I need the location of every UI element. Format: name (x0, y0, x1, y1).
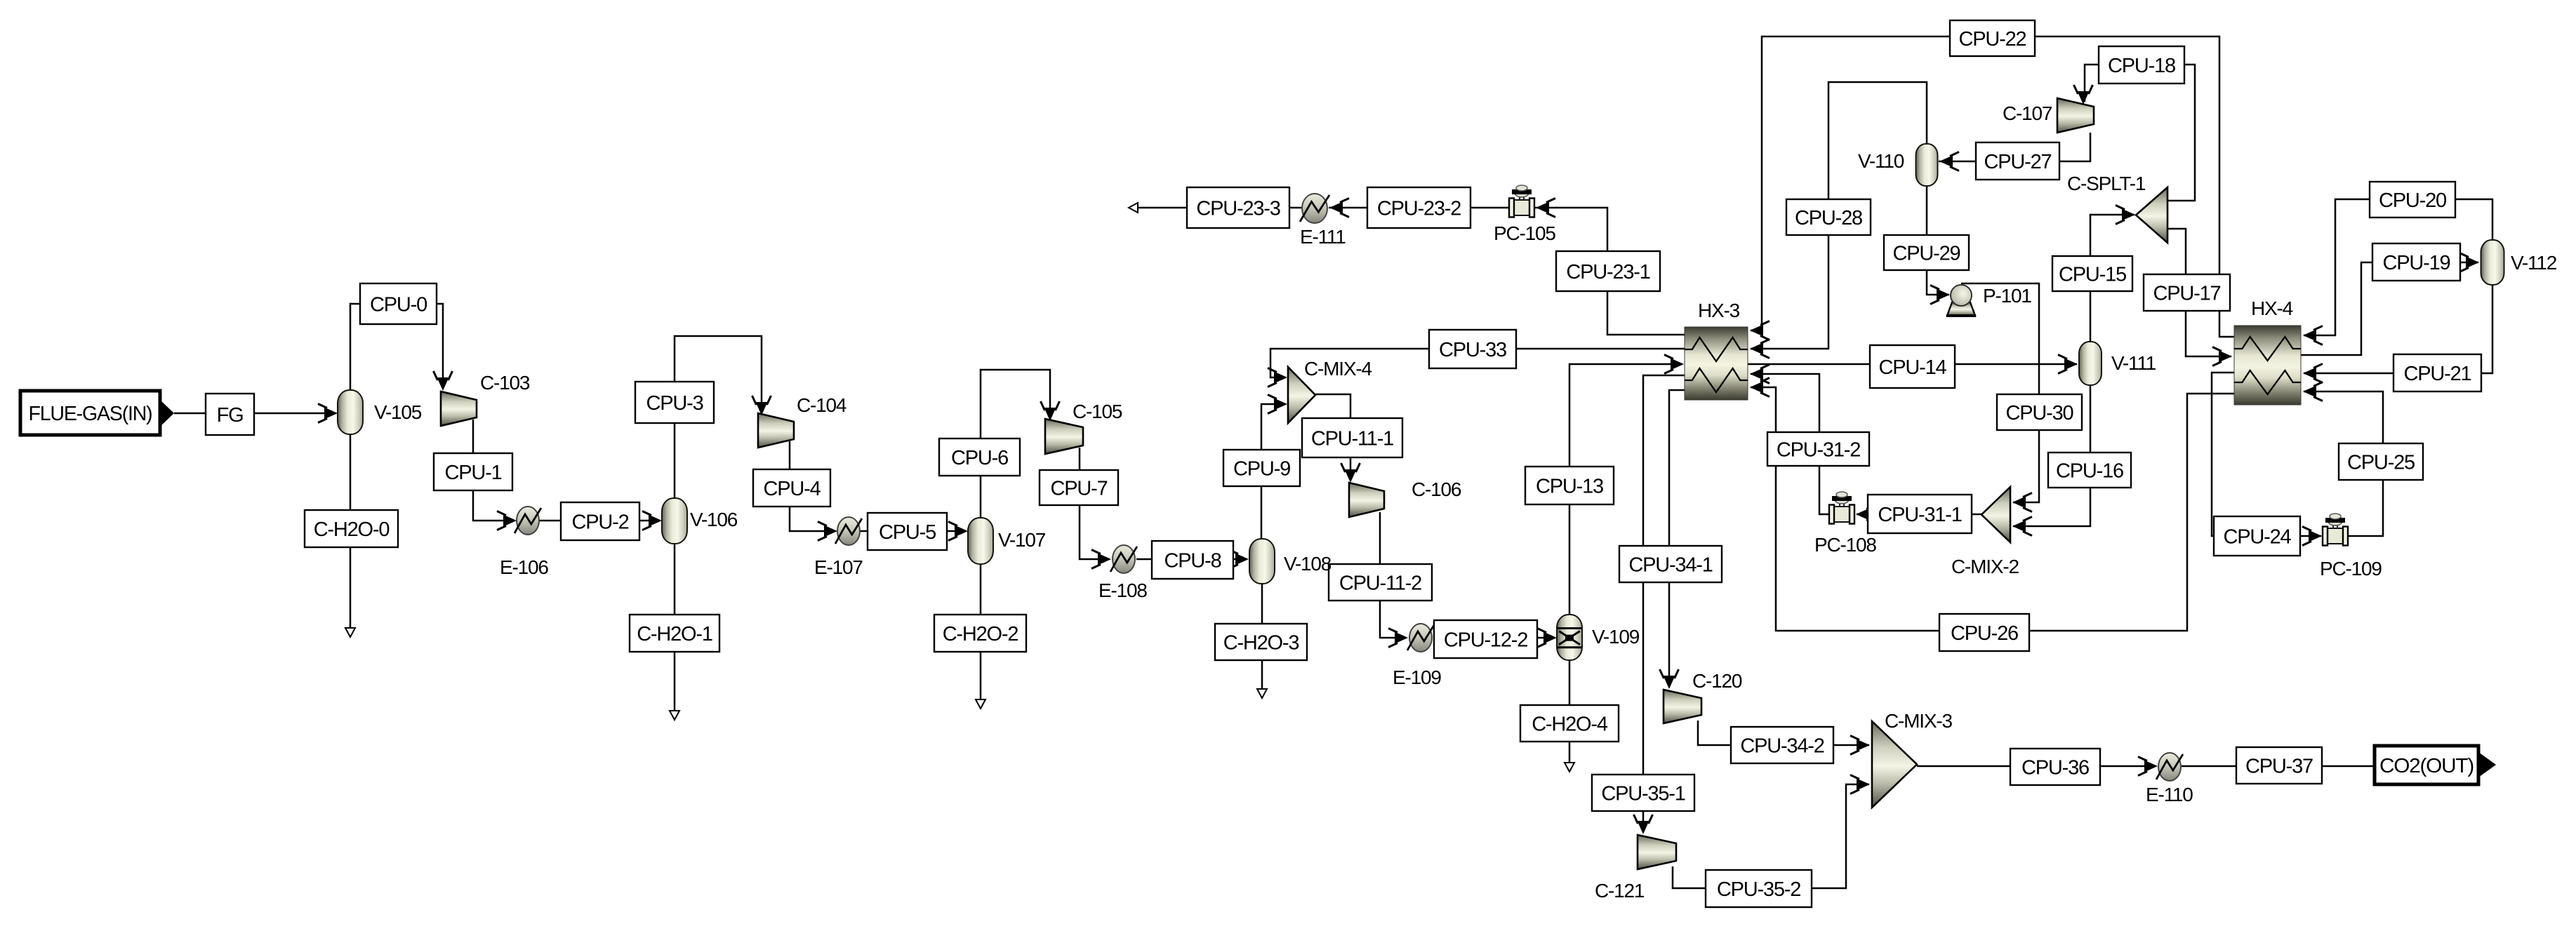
svg-text:E-110: E-110 (2146, 784, 2193, 805)
svg-text:C-106: C-106 (1412, 478, 1461, 500)
arrowhead into C-MIX-2 bottom (2012, 517, 2032, 536)
svg-text:CO2(OUT): CO2(OUT) (2379, 755, 2474, 777)
wire CPU-22 (1751, 36, 2234, 337)
svg-text:CPU-5: CPU-5 (879, 521, 936, 544)
compressor C-104 (758, 413, 794, 448)
wire C-H2O-3 (1261, 584, 1263, 695)
svg-text:V-107: V-107 (998, 529, 1046, 551)
wire CPU-35-2 (1673, 784, 1869, 888)
svg-text:CPU-28: CPU-28 (1795, 207, 1862, 229)
stream label CPU-31-2 (1767, 432, 1869, 466)
splitter C-SPLT-1 (2136, 187, 2167, 243)
svg-text:V-108: V-108 (1284, 553, 1332, 575)
arrowhead into PC-108 (1856, 505, 1875, 524)
heater E-108 (1110, 545, 1137, 573)
svg-text:CPU-25: CPU-25 (2347, 452, 2415, 474)
arrowhead into HX-4 right CPU-25 (2303, 382, 2323, 401)
svg-text:CPU-0: CPU-0 (370, 294, 427, 316)
arrowhead into C-MIX-2 top (2012, 493, 2032, 512)
svg-text:CPU-37: CPU-37 (2245, 756, 2313, 778)
stream label CPU-3 (635, 382, 714, 423)
stream label C-H2O-2 (934, 615, 1026, 652)
stream label FG (206, 394, 254, 435)
wire CPU-9 (1261, 404, 1285, 539)
wire CPU-16 (2013, 385, 2090, 526)
svg-text:CPU-34-2: CPU-34-2 (1740, 735, 1824, 758)
wire CPU-12-2 (1433, 637, 1555, 639)
wire CPU-35-1 (1643, 375, 1685, 832)
svg-text:C-120: C-120 (1692, 670, 1742, 692)
stream label CPU-28 (1786, 199, 1871, 235)
svg-text:C-H2O-3: C-H2O-3 (1223, 632, 1299, 655)
heater E-111 (1300, 194, 1329, 223)
wire CPU-1 (473, 420, 514, 521)
stream label CPU-33 (1429, 330, 1516, 368)
compressor C-107 (2057, 98, 2094, 133)
svg-text:CPU-22: CPU-22 (1959, 28, 2026, 51)
wire CPU-7 (1080, 448, 1109, 559)
wire CPU-28 (1751, 82, 1927, 349)
arrowhead into E-107 (818, 522, 837, 541)
svg-text:CPU-20: CPU-20 (2379, 189, 2446, 212)
stream label CPU-14 (1870, 345, 1955, 388)
stream label CPU-17 (2144, 274, 2230, 311)
arrowhead into C-MIX-4 top (1268, 368, 1287, 387)
stream label C-H2O-0 (305, 510, 398, 547)
arrowhead into C-MIX-3 bottom (1850, 775, 1870, 794)
arrowhead into C-105 (1041, 401, 1060, 421)
stream label CPU-36 (2010, 749, 2100, 785)
wire CPU-13 (1569, 364, 1682, 615)
svg-text:C-H2O-2: C-H2O-2 (943, 623, 1018, 645)
svg-text:C-SPLT-1: C-SPLT-1 (2067, 173, 2146, 194)
svg-text:CPU-6: CPU-6 (951, 447, 1008, 469)
compressor C-120 (1664, 690, 1701, 723)
vessel V-106 (662, 498, 687, 544)
stream label CPU-25 (2339, 443, 2423, 480)
open arrow waste water 0 (345, 628, 355, 637)
arrowhead into C-MIX-4 bottom (1268, 395, 1287, 414)
wire CPU-24 (2212, 373, 2321, 536)
wire CPU-36 (1917, 765, 2156, 768)
svg-text:HX-3: HX-3 (1698, 300, 1740, 321)
svg-text:FLUE-GAS(IN): FLUE-GAS(IN) (29, 403, 152, 425)
stream label CPU-15 (2052, 256, 2132, 291)
stream label CPU-12-2 (1434, 620, 1537, 658)
svg-text:CPU-3: CPU-3 (646, 392, 703, 415)
arrowhead into PC-109 (2302, 527, 2322, 546)
svg-text:V-105: V-105 (374, 401, 422, 423)
svg-text:CPU-31-2: CPU-31-2 (1777, 439, 1860, 462)
wire CPU-11-2 (1380, 512, 1406, 638)
svg-text:CPU-23-3: CPU-23-3 (1196, 198, 1280, 220)
wire CPU-34-2 (1698, 721, 1869, 745)
svg-text:CPU-26: CPU-26 (1951, 622, 2018, 645)
stream label CPU-7 (1040, 470, 1118, 505)
pump P-101 (1946, 285, 1976, 316)
wire CPU-11-1 (1315, 394, 1350, 480)
wire CPU-20 (2304, 199, 2492, 335)
wire C-H2O-2 (980, 564, 982, 705)
stream label CPU-13 (1525, 467, 1614, 504)
arrowhead into HX-3 right CPU-22 (1750, 321, 1770, 340)
valve PC-109 (2323, 514, 2348, 546)
svg-text:C-H2O-0: C-H2O-0 (314, 518, 390, 541)
svg-text:V-106: V-106 (690, 509, 738, 530)
inlet triangle FLUE-GAS(IN) (160, 400, 174, 427)
svg-text:C-105: C-105 (1073, 401, 1122, 422)
stream label CPU-2 (561, 502, 639, 540)
svg-text:CPU-23-2: CPU-23-2 (1377, 198, 1461, 220)
svg-text:V-109: V-109 (1592, 626, 1640, 648)
stream label CPU-5 (868, 513, 947, 550)
svg-text:E-107: E-107 (814, 556, 863, 578)
mixer C-MIX-4 (1288, 367, 1315, 423)
vessel V-107 (968, 518, 993, 564)
arrowhead into C-120 (1660, 669, 1679, 689)
arrowhead into C-104 (752, 396, 771, 415)
open arrow waste water 2 (976, 699, 985, 709)
stream label CPU-1 (434, 453, 512, 490)
wire CPU-8 (1136, 558, 1247, 561)
stream label CPU-19 (2372, 243, 2460, 281)
svg-text:CPU-12-2: CPU-12-2 (1444, 629, 1527, 652)
mixer C-MIX-3 (1872, 721, 1917, 808)
stream label CPU-27 (1976, 142, 2059, 180)
wire CPU-31-1 (1857, 514, 1981, 516)
arrowhead into V-109 (1537, 629, 1557, 648)
heater E-106 (514, 507, 541, 535)
wire CPU-31-2 (1751, 374, 1830, 514)
svg-text:CPU-27: CPU-27 (1984, 151, 2052, 173)
wire CPU-5 (860, 530, 966, 533)
valve PC-105 (1509, 185, 1534, 217)
arrowhead into C-SPLT-1 (2116, 206, 2135, 225)
open arrow waste water 3 (1257, 689, 1267, 698)
wire CPU-21 (2304, 285, 2492, 373)
vessel V-110 (1916, 144, 1938, 186)
svg-text:E-109: E-109 (1393, 667, 1441, 688)
stream label CPU-37 (2236, 747, 2322, 784)
arrowhead into HX-4 left CPU-17 (2212, 347, 2232, 366)
stream label CPU-20 (2370, 182, 2455, 217)
svg-text:C-103: C-103 (480, 372, 530, 394)
stream label FLUE-GAS(IN) (20, 391, 160, 435)
svg-text:CPU-35-1: CPU-35-1 (1601, 783, 1685, 805)
arrowhead into E-106 (497, 511, 517, 530)
compressor C-106 (1349, 483, 1384, 517)
arrowhead into HX-3 right CPU-31-2 (1750, 365, 1770, 384)
wire C-H2O-4 (1569, 660, 1571, 768)
wire CPU-37 (2182, 765, 2375, 768)
svg-text:C-104: C-104 (797, 394, 847, 416)
stream label CPU-35-2 (1706, 870, 1812, 907)
wire CPU-0 (350, 304, 443, 391)
svg-text:CPU-9: CPU-9 (1233, 458, 1290, 481)
wire CPU-2 (538, 520, 660, 522)
svg-text:V-111: V-111 (2111, 352, 2156, 374)
svg-text:PC-109: PC-109 (2320, 558, 2382, 580)
stream label CPU-31-1 (1868, 495, 1972, 533)
wire CPU-33 (1270, 349, 1685, 377)
stream label CPU-26 (1939, 614, 2029, 651)
wire CPU-30 (1961, 283, 2039, 502)
stream label CPU-24 (2214, 516, 2300, 556)
arrowhead into HX-3 left (1664, 355, 1684, 374)
stream label CPU-0 (360, 283, 437, 324)
open arrow waste water 1 (670, 711, 679, 720)
heat exchanger HX-4 (2234, 326, 2301, 405)
svg-text:C-H2O-4: C-H2O-4 (1532, 714, 1608, 736)
heater E-110 (2156, 753, 2183, 781)
arrowhead into C-106 (1341, 463, 1360, 483)
svg-text:CPU-14: CPU-14 (1879, 356, 1947, 379)
svg-text:CPU-2: CPU-2 (571, 511, 628, 534)
arrowhead into E-108 (1091, 550, 1111, 569)
vessel V-108 (1249, 539, 1275, 584)
arrowhead into V-105 (318, 404, 338, 423)
wire CPU-15 (2090, 215, 2135, 342)
heater E-109 (1407, 624, 1434, 652)
svg-text:C-121: C-121 (1595, 880, 1645, 902)
arrowhead into C-103 (434, 371, 453, 391)
svg-text:CPU-13: CPU-13 (1536, 476, 1603, 498)
vessel V-111 (2079, 342, 2102, 385)
svg-text:CPU-34-1: CPU-34-1 (1628, 554, 1712, 577)
svg-text:V-110: V-110 (1858, 150, 1904, 172)
stream label CPU-21 (2394, 354, 2481, 391)
arrowhead into E-111 (1329, 199, 1349, 217)
arrowhead into PC-105 (1536, 199, 1555, 217)
svg-text:CPU-35-2: CPU-35-2 (1717, 878, 1800, 901)
stream label CO2(OUT) (2375, 746, 2478, 784)
compressor C-103 (441, 391, 477, 426)
stream label CPU-35-1 (1592, 775, 1694, 811)
stream label CPU-16 (2048, 453, 2131, 488)
arrowhead into C-MIX-3 top (1850, 736, 1870, 755)
svg-text:CPU-4: CPU-4 (763, 478, 821, 500)
arrowhead into C-107 (2074, 85, 2093, 105)
wire CPU-23-3 (1133, 207, 1302, 209)
svg-text:CPU-15: CPU-15 (2059, 264, 2126, 286)
svg-text:C-MIX-3: C-MIX-3 (1885, 710, 1952, 732)
svg-text:CPU-17: CPU-17 (2153, 283, 2221, 305)
valve PC-108 (1829, 492, 1854, 524)
stream label C-H2O-4 (1520, 705, 1619, 742)
vessel V-109 (1557, 615, 1582, 660)
compressor C-121 (1638, 835, 1676, 869)
vessel V-105 (338, 390, 363, 434)
arrowhead into HX-3 right CPU-26 (1750, 378, 1770, 397)
stream label CPU-23-3 (1187, 187, 1289, 228)
wire FG (174, 413, 336, 415)
svg-text:HX-4: HX-4 (2251, 297, 2293, 319)
svg-text:CPU-11-2: CPU-11-2 (1339, 572, 1421, 595)
stream label CPU-11-1 (1302, 418, 1402, 457)
wire CPU-27 (1939, 133, 2090, 161)
arrowhead into V-111 (2058, 355, 2078, 374)
stream label CPU-34-2 (1731, 727, 1833, 763)
arrowhead into C-121 (1634, 815, 1653, 834)
svg-text:CPU-30: CPU-30 (2006, 402, 2073, 424)
wire C-H2O-0 (350, 434, 352, 634)
wire CPU-6 (981, 370, 1050, 518)
stream label CPU-23-1 (1556, 251, 1660, 291)
stream label C-H2O-1 (630, 615, 719, 652)
wire CPU-23-1 (1535, 208, 1685, 335)
stream label CPU-30 (1997, 394, 2082, 430)
stream label C-H2O-3 (1215, 624, 1307, 660)
svg-text:CPU-23-1: CPU-23-1 (1566, 261, 1649, 283)
stream label CPU-4 (753, 469, 830, 507)
wire CPU-34-1 (1669, 390, 1685, 687)
open arrow vent out (1129, 203, 1138, 213)
svg-text:CPU-29: CPU-29 (1893, 243, 1960, 265)
stream label CPU-6 (939, 438, 1020, 476)
stream label CPU-22 (1950, 20, 2035, 56)
wire CPU-3 (675, 336, 762, 498)
svg-text:CPU-7: CPU-7 (1050, 478, 1107, 500)
stream label CPU-11-2 (1329, 564, 1432, 601)
svg-text:P-101: P-101 (1983, 285, 2031, 307)
svg-text:CPU-19: CPU-19 (2383, 252, 2450, 274)
wire CPU-29 (1927, 186, 1949, 295)
wire CPU-19 (2301, 262, 2478, 355)
heat exchanger HX-3 (1685, 327, 1748, 400)
arrowhead into HX-3 right CPU-28 (1750, 340, 1770, 359)
svg-text:PC-105: PC-105 (1494, 222, 1555, 244)
svg-text:FG: FG (217, 404, 244, 427)
arrowhead into V-108 (1229, 550, 1249, 569)
wire CPU-17 (2167, 229, 2231, 356)
wire CPU-4 (790, 441, 835, 531)
arrowhead into E-109 (1388, 629, 1408, 648)
compressor C-105 (1045, 419, 1083, 454)
svg-text:CPU-16: CPU-16 (2056, 460, 2123, 483)
arrowhead into E-110 (2138, 757, 2158, 776)
svg-text:CPU-21: CPU-21 (2404, 363, 2471, 385)
arrowhead into V-112 (2459, 253, 2479, 272)
arrowhead into P-101 (1930, 286, 1950, 304)
arrowhead into V-107 (948, 522, 968, 541)
wire CPU-14 (1748, 363, 2077, 366)
svg-text:CPU-36: CPU-36 (2021, 757, 2089, 779)
svg-text:C-107: C-107 (2003, 102, 2052, 124)
arrowhead into V-110 (1939, 152, 1959, 171)
svg-text:CPU-18: CPU-18 (2108, 55, 2175, 77)
svg-text:CPU-1: CPU-1 (444, 462, 501, 484)
svg-text:CPU-31-1: CPU-31-1 (1878, 504, 1961, 526)
svg-text:V-112: V-112 (2511, 252, 2557, 274)
outlet triangle CO2(OUT) (2478, 752, 2496, 777)
stream label CPU-8 (1152, 541, 1233, 579)
stream label CPU-23-2 (1367, 187, 1470, 228)
svg-text:E-108: E-108 (1098, 580, 1147, 601)
open arrow waste water 4 (1565, 763, 1574, 772)
svg-text:E-111: E-111 (1300, 226, 1346, 248)
stream label CPU-34-1 (1619, 546, 1722, 582)
svg-text:CPU-33: CPU-33 (1439, 339, 1506, 361)
svg-text:CPU-11-1: CPU-11-1 (1311, 428, 1393, 450)
svg-text:E-106: E-106 (500, 556, 548, 578)
svg-text:PC-108: PC-108 (1814, 534, 1876, 556)
stream label CPU-29 (1884, 235, 1969, 270)
svg-text:C-H2O-1: C-H2O-1 (637, 623, 712, 645)
arrowhead into HX-4 right CPU-20 (2303, 326, 2323, 345)
stream label CPU-18 (2099, 46, 2184, 83)
mixer C-MIX-2 (apex left) (1981, 487, 2010, 542)
svg-text:CPU-8: CPU-8 (1164, 550, 1221, 572)
svg-text:C-MIX-2: C-MIX-2 (1951, 556, 2019, 577)
svg-text:C-MIX-4: C-MIX-4 (1304, 358, 1372, 380)
wire C-H2O-1 (674, 544, 676, 716)
wire CPU-26 (1751, 387, 2234, 631)
stream label CPU-9 (1223, 450, 1300, 486)
wire CPU-23-2 (1329, 207, 1511, 209)
wire CPU-18 (2085, 65, 2195, 201)
arrowhead into HX-4 right CPU-21 (2303, 364, 2323, 383)
wire CPU-25 (2304, 391, 2383, 536)
vessel V-112 (2481, 240, 2504, 285)
svg-text:CPU-24: CPU-24 (2224, 526, 2292, 549)
heater E-107 (835, 517, 862, 545)
arrowhead into V-106 (642, 511, 662, 530)
